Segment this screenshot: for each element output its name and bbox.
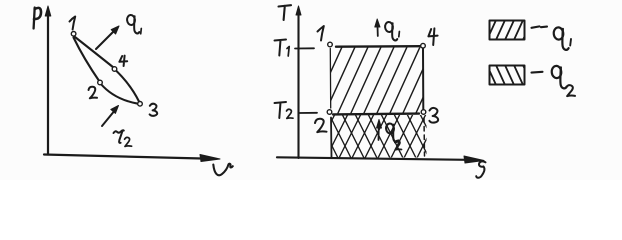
label 4 (T-s) xyxy=(428,28,437,45)
curve adiabat 4-3 xyxy=(116,70,140,102)
p-v diagram p axis xyxy=(45,6,51,155)
label 4 (p-v) xyxy=(119,56,127,66)
arrow q2 (T-s) xyxy=(377,120,382,141)
left edge below 2 xyxy=(330,118,333,158)
arrow q1 (T-s) xyxy=(375,19,380,36)
node 3 (p-v) xyxy=(138,102,143,107)
label 2 (T-s) xyxy=(315,119,327,132)
node 3 (T-s) xyxy=(421,110,426,115)
isotherm 1-4 top edge xyxy=(336,45,421,48)
axis label p xyxy=(34,8,41,29)
node 4 (T-s) xyxy=(421,43,426,48)
legend q2 label xyxy=(551,65,575,96)
legend q2 swatch box xyxy=(490,66,525,85)
node 4 (p-v) xyxy=(112,67,117,72)
axis label v xyxy=(213,164,233,176)
q1 area hatch xyxy=(312,47,446,113)
label 1 (p-v) xyxy=(70,17,76,30)
label T1 with tick xyxy=(275,40,315,57)
T-s diagram T axis xyxy=(296,6,301,158)
legend q1 label xyxy=(553,27,571,50)
label 2 (p-v) xyxy=(89,87,98,99)
node 2 (T-s) xyxy=(327,110,332,115)
curve isotherm 2-3 xyxy=(101,84,139,104)
label q1 (p-v) xyxy=(127,15,142,34)
arrow q1 (p-v) xyxy=(96,26,119,49)
label 1 (T-s) xyxy=(318,26,324,41)
node 1 (p-v) xyxy=(71,32,76,37)
label ch2 (p-v) xyxy=(114,130,132,146)
adiabat 1-2 left edge xyxy=(329,49,331,109)
T-s diagram s axis xyxy=(277,156,484,163)
legend q2 swatch hatch xyxy=(486,63,533,87)
label 3 (p-v) xyxy=(150,104,158,116)
label q1 (T-s) xyxy=(385,22,400,41)
axis label T xyxy=(279,5,292,20)
curve isotherm 1-4 xyxy=(75,37,114,68)
legend q1 swatch hatch xyxy=(486,18,533,42)
p-v diagram v axis xyxy=(44,155,220,162)
axis label s xyxy=(476,161,485,177)
isotherm 2-3 edge xyxy=(333,112,419,115)
node 2 (p-v) xyxy=(98,80,103,85)
arrow q2 (p-v) xyxy=(102,106,119,127)
legend q1 dash xyxy=(532,26,548,27)
dashed edge below 3 xyxy=(423,118,426,156)
label 3 (T-s) xyxy=(429,108,438,123)
q2 area crosshatch xyxy=(313,114,442,158)
label T2 with tick xyxy=(275,102,318,118)
label q2 (T-s) xyxy=(386,123,402,150)
legend q1 swatch box xyxy=(490,21,525,40)
adiabat 4-3 right edge xyxy=(422,49,424,110)
node 1 (T-s) xyxy=(328,42,333,47)
legend q2 dash xyxy=(532,71,543,74)
curve adiabat 1-2 xyxy=(74,38,100,82)
